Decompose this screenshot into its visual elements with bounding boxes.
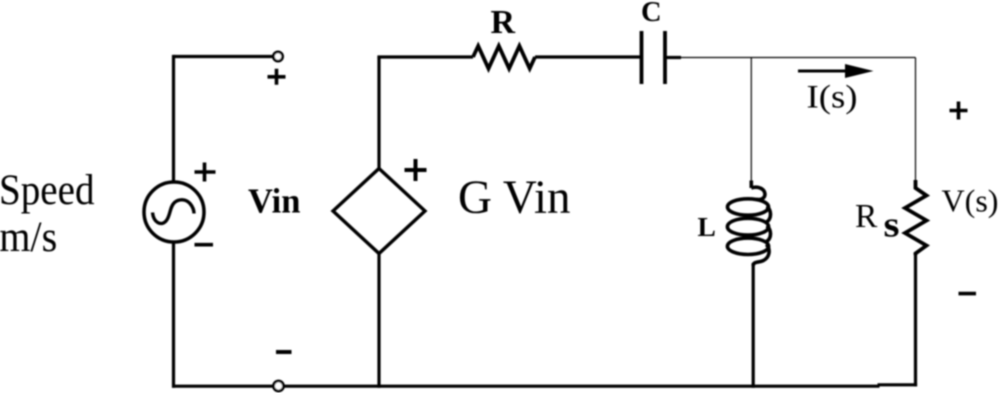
- svg-text:R: R: [491, 4, 516, 41]
- svg-text:m/s: m/s: [0, 214, 57, 261]
- svg-text:Speed: Speed: [0, 167, 95, 214]
- svg-text:I(s): I(s): [807, 80, 858, 116]
- svg-text:V(s): V(s): [942, 184, 999, 219]
- svg-text:R: R: [855, 198, 878, 235]
- svg-text:C: C: [641, 0, 662, 28]
- svg-text:L: L: [698, 211, 716, 242]
- svg-text:s: s: [884, 205, 900, 245]
- svg-text:Vin: Vin: [248, 183, 301, 221]
- svg-text:G Vin: G Vin: [458, 172, 571, 224]
